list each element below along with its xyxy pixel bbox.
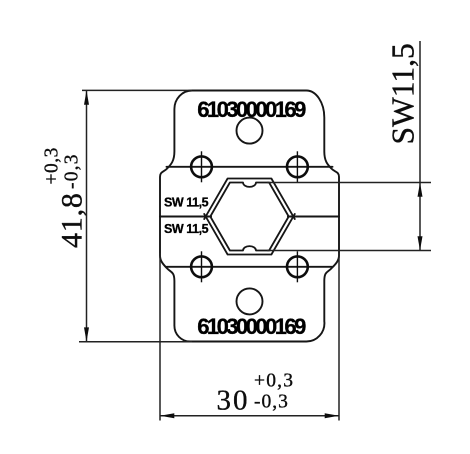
extension line hex top flat [267,182,431,184]
extension line bottom-left for 30 [159,253,161,421]
arrowhead 30 right [325,413,339,418]
svg-text:-0,3: -0,3 [254,392,289,413]
arrowhead 41,8 down [84,327,89,341]
bottom locating hole [237,288,263,314]
arrowhead SW up [418,183,423,197]
dimension line 41,8 [86,90,88,341]
top locating hole [237,118,263,144]
screw hole top-left [191,151,212,182]
svg-text:+0,3: +0,3 [254,371,294,392]
svg-text:61030000169: 61030000169 [197,97,306,122]
svg-text:61030000169: 61030000169 [197,314,306,339]
dimension line SW11,5 [419,41,421,251]
screw hole top-right [287,151,308,182]
hex cavity inner SW11,5 profile with wire reliefs [210,183,288,251]
lower step parting line [167,266,333,268]
die body outline [160,90,339,341]
extension line hex bottom flat [267,250,431,252]
svg-text:30: 30 [217,385,250,417]
svg-text:SW 11,5: SW 11,5 [164,196,209,210]
svg-text:41,8: 41,8 [56,192,89,248]
svg-text:SW 11,5: SW 11,5 [164,222,209,236]
hex cavity outer contour lower half [204,214,295,255]
dimension line 30 [160,415,339,417]
screw hole bottom-left [191,251,212,282]
screw hole bottom-right [287,251,308,282]
extension line bottom for 41,8 [79,341,192,343]
arrowhead SW down [418,236,423,250]
svg-text:SW11,5: SW11,5 [386,43,421,144]
upper step parting line [167,166,333,168]
die split line right of hex [288,215,339,217]
svg-text:+0,3: +0,3 [42,147,63,184]
extension line top for 41,8 [82,89,192,91]
die split line left of hex [160,215,211,217]
hex cavity outer contour upper half [204,179,295,220]
arrowhead 41,8 up [84,90,89,104]
extension line bottom-right for 30 [338,253,340,421]
svg-text:-0,3: -0,3 [62,153,83,189]
arrowhead 30 left [160,413,174,418]
